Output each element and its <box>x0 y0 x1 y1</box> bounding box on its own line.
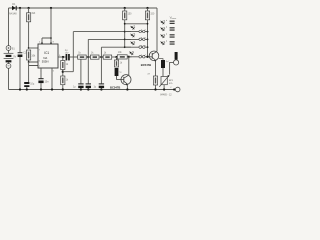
wire battery to bottom bus <box>8 68 10 89</box>
lamp L5 <box>139 46 142 49</box>
wire LED row5 <box>129 56 152 58</box>
capacitor C4 series <box>66 54 68 60</box>
node junction top x51 <box>50 7 52 9</box>
svg-text:IC1: IC1 <box>44 51 49 55</box>
wire Q1 emitter down <box>155 61 157 76</box>
svg-text:10µ: 10µ <box>30 83 35 86</box>
lamp L8 <box>143 55 146 58</box>
capacitor C2 timing <box>24 82 29 84</box>
lamp L4 <box>143 38 146 41</box>
wire LED rows 2-4 <box>125 31 148 33</box>
capacitor C7 electrolytic <box>115 68 119 76</box>
wire right rail from top bus <box>156 8 158 51</box>
wire branch to row2 tap <box>63 32 131 72</box>
wire down to C6 <box>100 57 102 83</box>
node chain junction x88.3 <box>87 56 89 58</box>
resistor R10 LED rail left <box>124 8 126 11</box>
node junction top x29.5 <box>27 7 29 9</box>
svg-text:9V: 9V <box>13 56 16 59</box>
wire C1 to bus <box>19 57 21 90</box>
svg-text:BC547B: BC547B <box>110 85 120 89</box>
wire pin5 down <box>51 68 53 90</box>
wire tap up row3 <box>88 39 131 57</box>
resistor R9 chain last <box>117 55 127 59</box>
resistor R8 to Q2 base RC <box>116 57 118 60</box>
resistor R1 <box>28 8 30 13</box>
battery B1 <box>6 46 11 51</box>
wire LED row1 plain <box>125 23 148 25</box>
svg-text:555N: 555N <box>42 59 49 63</box>
lamp L2 <box>143 30 146 33</box>
wire jack to wiper <box>170 62 174 74</box>
diode D1 <box>9 7 21 9</box>
LED legend 3 <box>160 32 167 39</box>
node junction top x124.7 <box>124 7 126 9</box>
wire to Q2 base <box>117 76 124 80</box>
wire down to C5b <box>87 57 89 83</box>
svg-text:3k3: 3k3 <box>31 12 36 15</box>
capacitor C1 decoupling <box>18 51 23 54</box>
LED legend 1 <box>160 19 167 26</box>
wire x21 down <box>19 8 21 52</box>
wire LED right rail <box>147 20 149 57</box>
node junction top x147.5 <box>146 7 148 9</box>
wire R5 bottom shunt <box>80 59 82 83</box>
node pin7 <box>28 47 30 49</box>
wire top supply bus <box>9 7 158 9</box>
node junction top x21 <box>19 7 21 9</box>
lamp L1 <box>139 30 142 33</box>
lamp L3 <box>139 38 142 41</box>
svg-text:1N4148: 1N4148 <box>8 13 17 16</box>
LED D3 <box>130 32 137 39</box>
wire pin1 down, capacitor C3 <box>40 68 42 78</box>
LED legend 2 <box>160 25 167 32</box>
transistor Q1 <box>149 51 159 61</box>
svg-text:84485 - 12: 84485 - 12 <box>160 93 172 96</box>
svg-text:10n: 10n <box>45 81 50 84</box>
node left rail joints <box>124 23 126 25</box>
resistor R7 chain <box>103 55 112 59</box>
resistor R11 LED rail right <box>147 8 149 11</box>
wire R2 to pins 6,2 <box>29 60 38 66</box>
LED legend 4 <box>160 39 167 46</box>
capacitor C6 shunt <box>99 83 104 84</box>
wire R1 to pin7 node <box>28 22 30 48</box>
wire bottom ground bus <box>9 89 176 91</box>
wire left drop to battery <box>8 8 10 46</box>
capacitor C5 shunt <box>78 83 83 84</box>
terminal jack top <box>175 52 178 60</box>
resistor R4 stack lower <box>61 76 65 85</box>
LED D2 <box>130 24 137 31</box>
wire LED left rail <box>124 20 126 47</box>
potentiometer RP1 <box>161 77 167 85</box>
terminal jack bottom <box>173 88 175 90</box>
wire Q1 collector to rail <box>156 50 158 52</box>
node junction x116.5 <box>115 56 117 58</box>
node stack mid <box>62 70 64 77</box>
wire tap up row4 <box>101 47 131 57</box>
transistor Q2 <box>121 75 131 85</box>
LED D8 <box>128 49 135 56</box>
lamp L6 <box>143 46 146 49</box>
LED D4 <box>130 39 137 46</box>
node junction x128.8 <box>128 56 130 58</box>
resistor R5 chain <box>78 55 87 59</box>
svg-text:BC547B: BC547B <box>141 63 151 67</box>
lamp L7 <box>139 55 142 58</box>
resistor R2 <box>27 50 31 60</box>
resistor R3 stack upper <box>62 57 64 61</box>
op-amp IC1 555 <box>38 44 58 68</box>
node output junction <box>62 56 64 58</box>
capacitor C5b shunt <box>86 83 91 84</box>
wire IC pin3 output <box>58 56 66 58</box>
resistor R6 chain <box>91 55 100 59</box>
wire down to C2 <box>28 62 30 82</box>
node right rail joints <box>147 23 149 25</box>
node chain junction x101.4 <box>100 56 102 58</box>
svg-text:16V: 16V <box>65 52 69 54</box>
capacitor C8 electrolytic <box>159 59 163 60</box>
wire Q2 collector <box>128 57 130 75</box>
wire to IC top pins 4,8 <box>42 8 51 44</box>
wire Q2 emitter <box>126 85 128 90</box>
